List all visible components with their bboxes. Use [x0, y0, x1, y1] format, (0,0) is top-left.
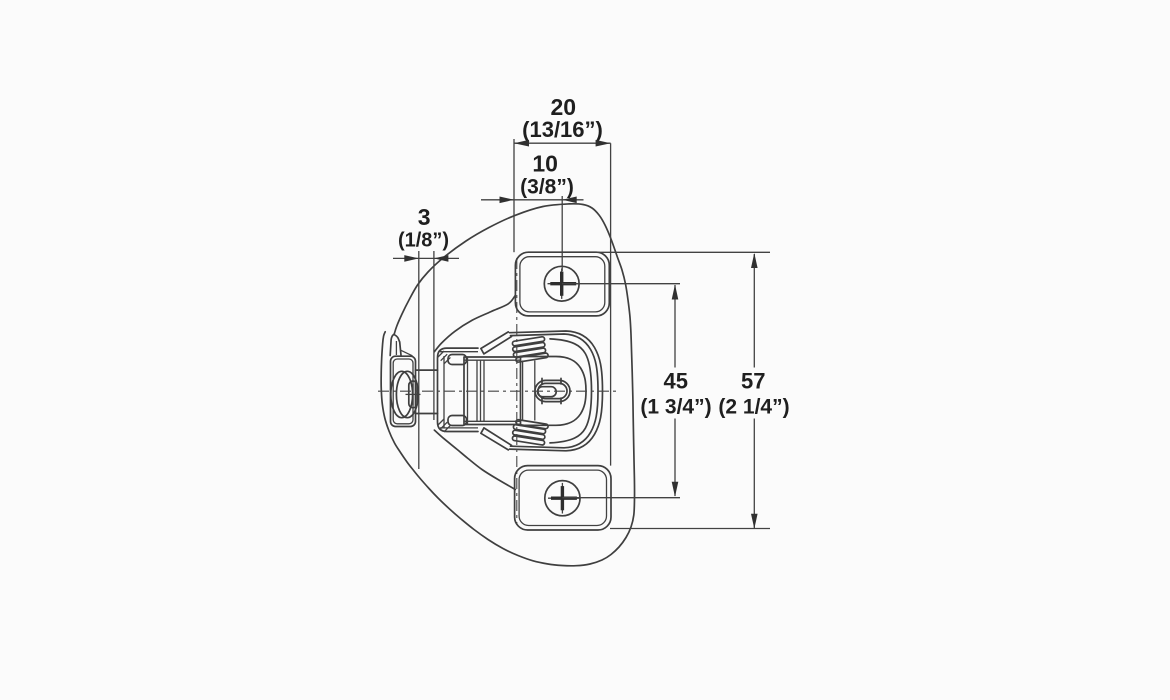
dim line 10: [481, 197, 584, 204]
horizontal centerline: [378, 390, 620, 392]
arm cap ears: [448, 355, 467, 426]
svg-text:45: 45: [664, 368, 688, 393]
neck between flange and arm cap: [416, 370, 438, 413]
leader bottom screw center: [562, 497, 680, 499]
leader pocket bottom: [610, 528, 770, 530]
svg-text:(2 1/4”): (2 1/4”): [718, 395, 789, 418]
dim line 45: [672, 285, 679, 497]
dim text 57: [718, 368, 789, 418]
svg-text:57: 57: [741, 368, 765, 393]
dim text 20: [522, 94, 603, 142]
svg-text:(13/16”): (13/16”): [522, 117, 603, 142]
dim text 3: [398, 204, 449, 252]
cap corner hatching: [438, 351, 451, 432]
dim text 10: [520, 151, 574, 199]
svg-text:3: 3: [418, 204, 431, 230]
flange boss (cam side view): [391, 371, 421, 417]
hinge wing outer outline: [381, 204, 634, 566]
dim line 3: [393, 255, 459, 262]
svg-text:(3/8”): (3/8”): [520, 176, 574, 199]
cup outer contour: [510, 331, 603, 451]
spring stack bottom: [512, 419, 548, 445]
cam slot oval: [535, 378, 570, 403]
ext line 20 left: [513, 139, 515, 252]
vertical centerline: [516, 258, 518, 524]
side flange bracket: [391, 356, 416, 426]
wing sweep curves: [434, 296, 515, 490]
adjustment box: [464, 357, 521, 425]
leader pocket top: [595, 251, 770, 253]
svg-text:(1/8”): (1/8”): [398, 230, 449, 252]
ext lines 3: [419, 251, 434, 469]
dim line 57: [751, 253, 758, 529]
plate right edge line: [610, 143, 612, 465]
cup mid contour (right corner only): [550, 339, 592, 443]
spring stack top: [512, 336, 548, 362]
bottom screw: [545, 481, 580, 516]
ext line 10 right (screw axis): [561, 196, 563, 271]
dim line 20: [514, 140, 611, 147]
cup opening contour: [520, 357, 586, 426]
collar diagonal struts: [481, 332, 512, 450]
arm cap outline: [438, 348, 479, 431]
dim text 45: [640, 368, 711, 418]
top screw pocket: [515, 252, 609, 316]
wing horn tab top-left: [390, 334, 412, 355]
slot holder walls: [523, 361, 535, 422]
bottom screw pocket: [515, 466, 611, 530]
svg-text:(1 3/4”): (1 3/4”): [640, 395, 711, 418]
top screw: [544, 266, 579, 301]
leader top screw center: [562, 283, 680, 285]
svg-text:10: 10: [532, 151, 558, 177]
